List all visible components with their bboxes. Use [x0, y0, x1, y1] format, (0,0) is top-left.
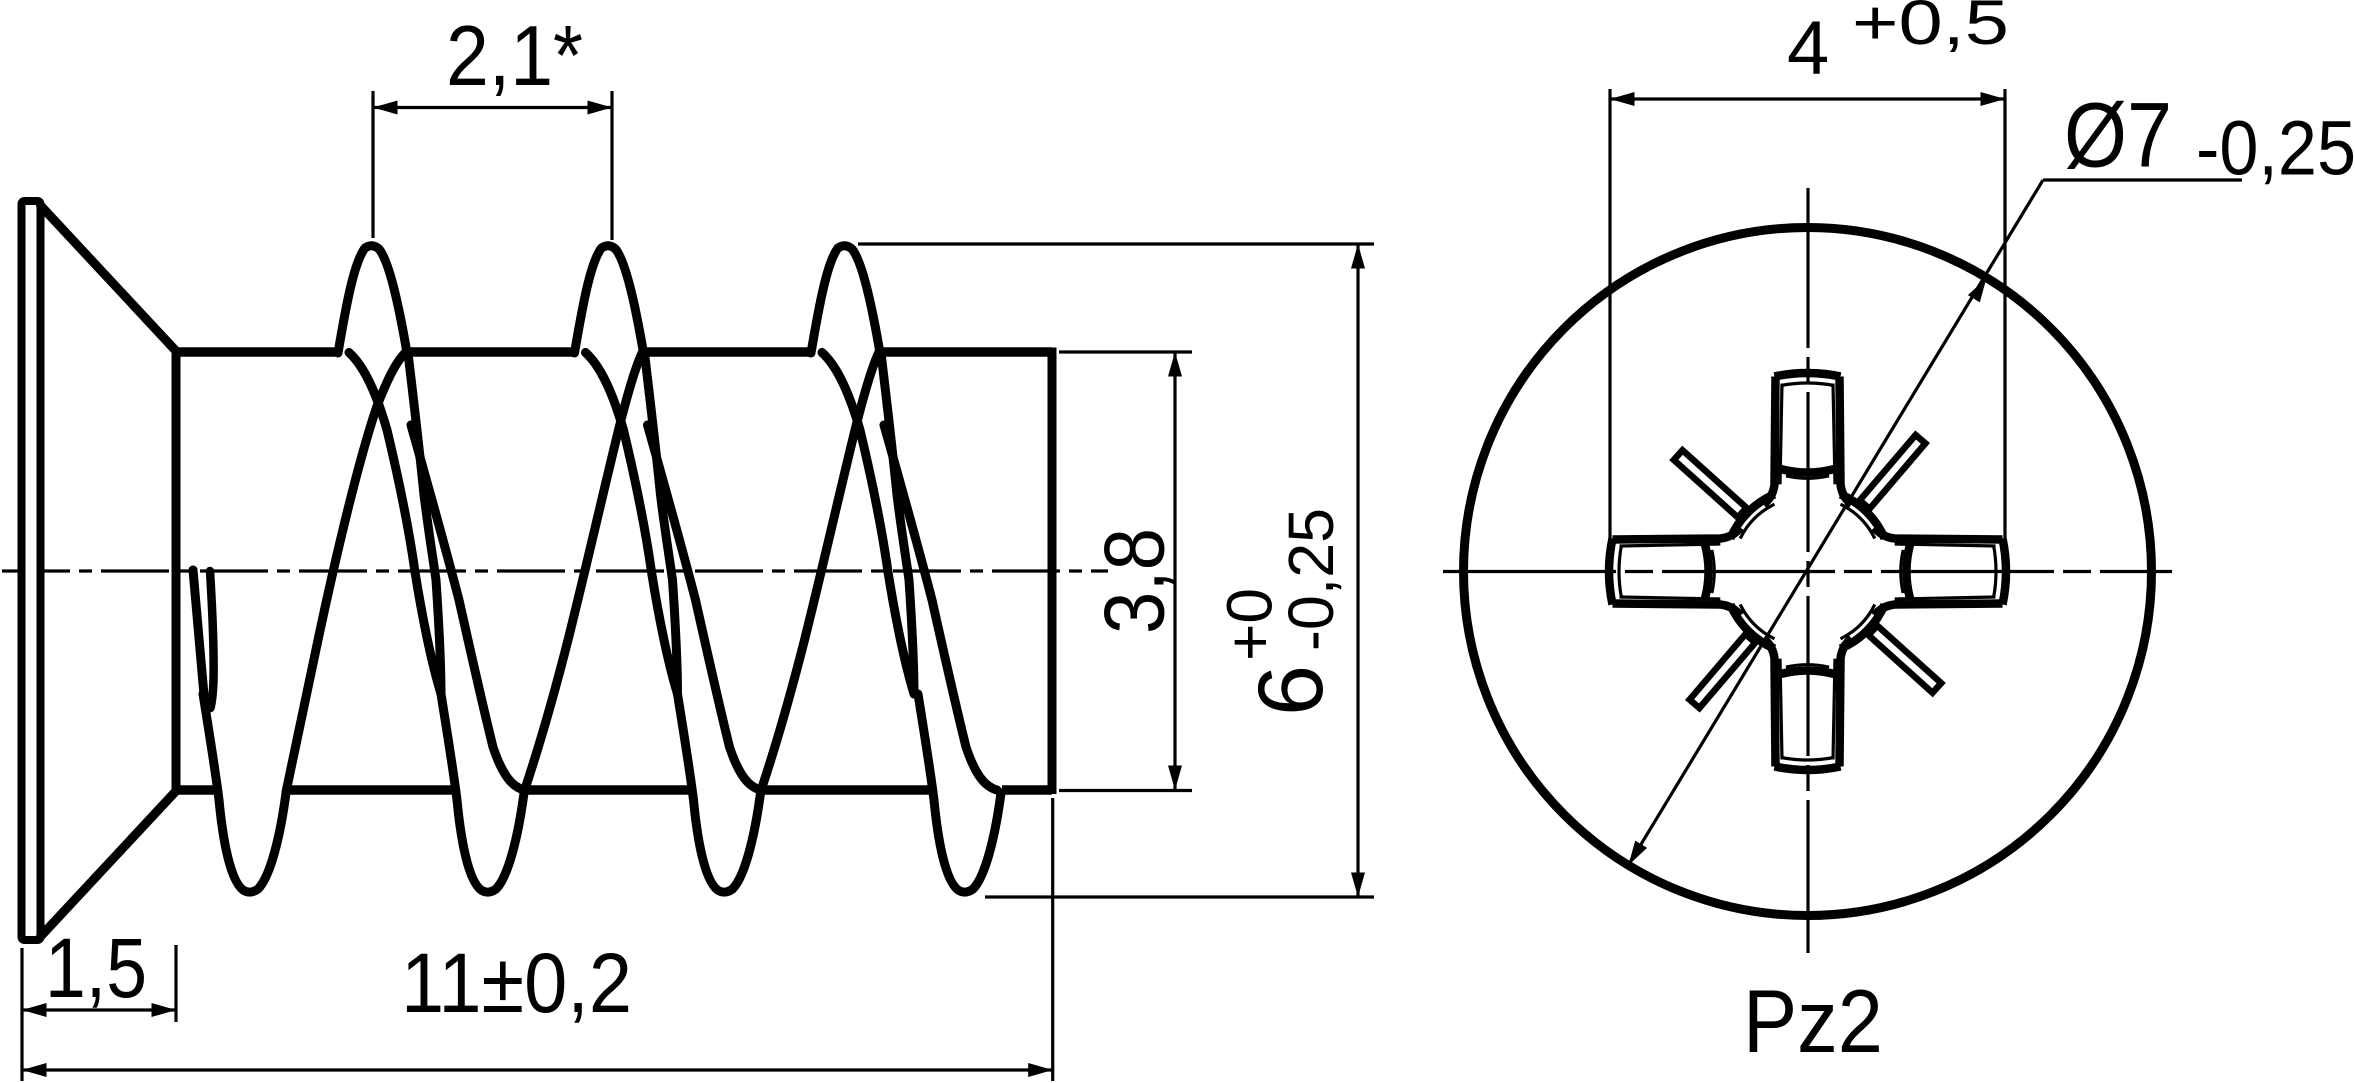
- dimension 2,1* thread pitch: [373, 9, 612, 240]
- svg-text:3,8: 3,8: [1088, 528, 1183, 634]
- thread front flank line B of crest 3: [881, 353, 914, 694]
- Pz2 recess slot bottom arcs: [1705, 469, 1910, 674]
- svg-text:+0,5: +0,5: [1852, 0, 2009, 58]
- thread rising flank to crest 3: [761, 353, 879, 792]
- countersunk cone upper slant: [41, 206, 177, 352]
- head outline circle: [1464, 228, 2152, 916]
- centerline of screw axis (side view): [2, 569, 1108, 572]
- Pz2 recess left wing: [1609, 528, 1740, 616]
- svg-text:Ø7: Ø7: [2064, 85, 2172, 187]
- core right end edge: [1048, 348, 1057, 795]
- thread front flank line B of crest 1: [408, 353, 441, 694]
- thread front flank line A of crest 3: [822, 353, 914, 695]
- svg-text:-0,25: -0,25: [1275, 508, 1347, 651]
- thread top crest 1: [338, 246, 407, 353]
- thread bottom crest 1: [203, 694, 286, 892]
- Pz2 recess core circle inner detail arcs: [1740, 504, 1875, 639]
- svg-text:-0,25: -0,25: [2196, 106, 2355, 192]
- thread back flank line C of crest 1: [411, 425, 524, 790]
- thread front flank line A of crest 2: [586, 353, 678, 695]
- thread bottom crest 2: [441, 694, 524, 892]
- dimension 4 +0,5 cross recess size: [1610, 0, 2009, 540]
- countersunk cone lower slant: [41, 791, 177, 937]
- Pz2 lower-right identification blade: [1869, 626, 1942, 693]
- thread top crest 3: [811, 246, 880, 353]
- thread rising flank to crest 2: [524, 353, 642, 792]
- thread rising flank to crest 1: [286, 353, 405, 792]
- thread front flank line A of crest 1: [349, 353, 441, 695]
- svg-text:4: 4: [1787, 6, 1829, 91]
- dimension 11 plus-minus 0,2 overall length: [22, 798, 1053, 1081]
- svg-text:2,1*: 2,1*: [446, 9, 583, 104]
- svg-text:11±0,2: 11±0,2: [401, 936, 632, 1030]
- Pz2 upper-right identification blade: [1860, 435, 1926, 509]
- thread first partial flank line 1: [193, 570, 204, 695]
- thread first partial flank line 2: [210, 571, 214, 708]
- core left edge: [172, 348, 181, 794]
- svg-text:Pz2: Pz2: [1743, 971, 1883, 1071]
- Pz2 lower-left identification blade: [1690, 634, 1756, 708]
- dimension diameter 7 -0,25 head diameter with leader: [1628, 85, 2355, 866]
- vertical centerline (front view): [1806, 188, 1809, 953]
- thread bottom crest 4: [918, 694, 1001, 892]
- Pz2 drive label: [1743, 971, 1883, 1071]
- thread bottom crest 3: [678, 694, 761, 892]
- thread back flank line C of crest 3: [884, 425, 997, 790]
- Pz2 recess bottom wing: [1764, 639, 1852, 770]
- dimension 6 +0/-0,25 thread outer diameter: [858, 244, 1374, 897]
- Pz2 recess top wing: [1764, 373, 1852, 504]
- svg-text:1,5: 1,5: [45, 921, 147, 1015]
- dimension 3,8 core diameter: [1059, 352, 1192, 791]
- dimension 1,5 head height: [22, 921, 176, 1081]
- core cylinder bottom line: [176, 785, 1052, 795]
- horizontal centerline (front view): [1443, 570, 2172, 573]
- flange head rim: [22, 201, 41, 940]
- thread back flank line C of crest 2: [648, 425, 761, 790]
- Pz2 recess core circle arcs: [1730, 494, 1884, 648]
- core cylinder top line: [176, 347, 1052, 357]
- svg-text:6: 6: [1240, 665, 1342, 716]
- Pz2 upper-left identification blade: [1674, 450, 1747, 517]
- thread top crest 2: [575, 246, 644, 353]
- thread front flank line B of crest 2: [645, 353, 678, 694]
- Pz2 recess right wing: [1875, 528, 2006, 616]
